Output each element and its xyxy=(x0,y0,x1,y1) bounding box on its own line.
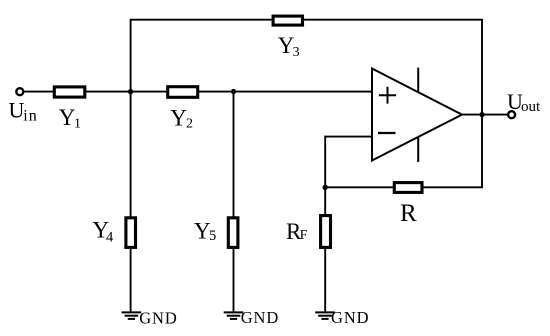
op-amp - input marker xyxy=(378,132,396,134)
op-amp U1 triangle xyxy=(372,69,462,161)
svg-text:GND: GND xyxy=(139,308,177,327)
svg-text:4: 4 xyxy=(106,229,114,245)
ground 1 (Y4) xyxy=(122,312,142,319)
resistor RF xyxy=(321,216,331,248)
op-amp positive supply pin xyxy=(417,68,419,92)
resistor R xyxy=(394,183,422,193)
svg-text:in: in xyxy=(23,108,37,125)
wire: left vertical, top feedback rail, right vertical, R rail, RF column xyxy=(131,20,482,312)
resistor Y1 xyxy=(54,87,85,97)
resistor Y4 xyxy=(126,218,136,248)
ground 3 (RF) xyxy=(315,312,335,319)
svg-text:GND: GND xyxy=(331,308,369,327)
ground 2 (Y5) xyxy=(224,312,244,319)
op-amp + input marker xyxy=(379,87,396,104)
svg-text:out: out xyxy=(521,99,541,115)
svg-text:3: 3 xyxy=(293,45,300,60)
op-amp negative supply pin xyxy=(417,137,419,162)
resistor Y3 xyxy=(273,16,302,25)
wire: op-amp output to Uout terminal xyxy=(461,114,507,116)
svg-text:1: 1 xyxy=(74,116,81,131)
svg-text:Y: Y xyxy=(170,105,187,130)
node A junction dot xyxy=(128,89,133,94)
svg-text:U: U xyxy=(9,97,25,122)
node B junction dot xyxy=(231,89,236,94)
wire: main input rail Uin to op-amp + input xyxy=(24,91,372,93)
resistor Y5 xyxy=(228,218,238,248)
svg-text:R: R xyxy=(400,200,417,227)
wire: Y5 column down to GND xyxy=(233,92,235,312)
svg-text:5: 5 xyxy=(209,228,216,244)
svg-text:2: 2 xyxy=(186,116,193,131)
output node junction dot xyxy=(479,112,484,117)
resistor Y2 xyxy=(168,87,198,98)
node C junction dot xyxy=(323,185,328,190)
wire: inverting input branch xyxy=(325,137,372,190)
svg-text:GND: GND xyxy=(241,308,279,327)
input terminal Uin xyxy=(16,88,23,95)
output terminal Uout xyxy=(508,111,515,118)
svg-text:F: F xyxy=(300,227,308,242)
